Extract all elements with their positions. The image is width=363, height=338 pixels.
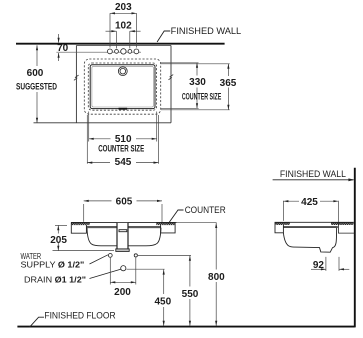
counter left end block (front view) bbox=[71, 222, 86, 233]
overflow slot mark (top view front edge) bbox=[119, 108, 128, 110]
counter front edge (top view) bbox=[34, 122, 172, 124]
water supply circle left bbox=[108, 254, 112, 258]
svg-text:203: 203 bbox=[115, 2, 132, 13]
drain leader bbox=[90, 269, 121, 278]
svg-text:600: 600 bbox=[27, 68, 44, 79]
drain circle bbox=[121, 266, 126, 271]
svg-text:70: 70 bbox=[57, 43, 69, 54]
sink rim lines (side view) bbox=[283, 226, 337, 228]
counter cutout dashed (top view) bbox=[88, 63, 156, 110]
dim 800 line bbox=[215, 223, 217, 270]
svg-text:205: 205 bbox=[50, 235, 67, 246]
dim 92 line bbox=[311, 268, 326, 270]
svg-text:92: 92 bbox=[313, 260, 325, 271]
faucet centre line bbox=[56, 51, 141, 53]
svg-text:365: 365 bbox=[220, 78, 237, 89]
drain coupling (front view) bbox=[116, 249, 129, 252]
dim 102 extension lines bbox=[115, 31, 117, 48]
dim 425 line bbox=[283, 200, 338, 202]
dim 200 line bbox=[110, 281, 136, 283]
svg-text:605: 605 bbox=[116, 197, 133, 208]
counter top line (side view) bbox=[275, 221, 354, 223]
svg-text:SUGGESTED: SUGGESTED bbox=[16, 82, 57, 93]
dim 550 line bbox=[189, 256, 191, 287]
dim 330 line bbox=[196, 63, 198, 76]
dim 425 text bbox=[299, 196, 320, 206]
dim 203 extension lines bbox=[109, 13, 111, 47]
faucet hole 1 bbox=[108, 49, 113, 54]
sink outer rim dashed (top view) bbox=[84, 59, 160, 114]
dim 545 text bbox=[110, 156, 136, 167]
counter right end block (front view) bbox=[161, 222, 176, 233]
faucet hole 3 bbox=[121, 49, 126, 54]
svg-text:COUNTER SIZE: COUNTER SIZE bbox=[98, 144, 144, 154]
finished wall line (top view) bbox=[16, 43, 225, 45]
counter top line (front view) bbox=[71, 221, 177, 223]
counter hatch left (side view) bbox=[275, 222, 289, 225]
finished wall line (side view, vertical) bbox=[354, 168, 356, 328]
sink bowl inner edge (top view) bbox=[92, 66, 153, 107]
counter hatch right (side view) bbox=[331, 222, 354, 225]
dim 330 extension lines bbox=[161, 62, 199, 64]
counter left edge (top view) bbox=[75, 46, 77, 123]
dim 600 line bbox=[36, 45, 38, 66]
overflow hole inner circle (top view) bbox=[120, 68, 126, 74]
sink bowl profile (side view) bbox=[283, 228, 336, 253]
800 extension line bbox=[177, 222, 217, 224]
svg-text:545: 545 bbox=[115, 157, 132, 168]
counter right edge (top view) bbox=[170, 46, 172, 123]
svg-text:200: 200 bbox=[114, 287, 131, 298]
dim 365 line bbox=[227, 64, 229, 76]
dim 450 line bbox=[163, 270, 165, 294]
faucet hole 2 bbox=[115, 50, 119, 54]
counter hatch right (front view) bbox=[156, 222, 175, 225]
svg-text:FINISHED WALL: FINISHED WALL bbox=[280, 169, 346, 179]
sink back mount line (side view) bbox=[338, 232, 355, 234]
counter hatch left (front view) bbox=[71, 222, 90, 225]
dim 605 text bbox=[112, 196, 137, 207]
sink bowl outline (front view) bbox=[87, 228, 161, 246]
dim 200 extension lines bbox=[109, 258, 111, 285]
drain tube (front view) bbox=[117, 223, 128, 249]
dim 205 extension lines bbox=[55, 224, 67, 226]
faucet hole 5 bbox=[134, 49, 139, 54]
svg-text:425: 425 bbox=[301, 197, 318, 208]
water supply leader bbox=[90, 255, 108, 264]
dim 365 extension lines bbox=[161, 63, 230, 65]
counter left end block (side view) bbox=[275, 222, 283, 233]
break mark right edge bbox=[169, 75, 174, 80]
finished floor line bbox=[17, 326, 354, 328]
sink back edge (side view) bbox=[337, 222, 339, 233]
dim 102 line bbox=[106, 30, 117, 32]
dim 510 line bbox=[89, 138, 157, 140]
dim 510 text bbox=[111, 134, 137, 143]
svg-text:800: 800 bbox=[208, 272, 225, 283]
sink rim lines (front view) bbox=[86, 226, 161, 228]
svg-text:550: 550 bbox=[182, 289, 199, 300]
svg-text:102: 102 bbox=[115, 20, 132, 31]
faucet hole 4 bbox=[128, 50, 132, 54]
dim 545 extension lines bbox=[86, 115, 88, 164]
break mark left edge bbox=[74, 75, 79, 80]
counter top edge (top view) bbox=[76, 45, 171, 47]
svg-text:SUPPLY Ø 1/2": SUPPLY Ø 1/2" bbox=[21, 260, 85, 269]
svg-text:FINISHED FLOOR: FINISHED FLOOR bbox=[44, 310, 116, 320]
finished floor leader bbox=[30, 317, 45, 327]
finished wall underline with arrow (side view) bbox=[273, 179, 354, 181]
dim 605 extension lines bbox=[83, 204, 85, 222]
dim 203 line bbox=[110, 12, 137, 14]
svg-text:FINISHED WALL: FINISHED WALL bbox=[171, 26, 242, 36]
dim 70 arrows bbox=[58, 34, 60, 43]
dim 92 extension lines bbox=[325, 257, 327, 271]
dim 425 extension lines bbox=[282, 201, 284, 221]
svg-text:COUNTER: COUNTER bbox=[185, 205, 226, 215]
svg-text:DRAIN Ø1 1/2": DRAIN Ø1 1/2" bbox=[24, 276, 86, 285]
dim 605 line bbox=[84, 200, 162, 202]
550 extension line bbox=[138, 254, 191, 256]
drain tube slot (front view) bbox=[119, 230, 127, 232]
svg-text:330: 330 bbox=[189, 77, 206, 88]
dim 545 line bbox=[87, 162, 158, 164]
svg-text:COUNTER SIZE: COUNTER SIZE bbox=[182, 91, 222, 101]
finished wall leader (top view) bbox=[157, 31, 170, 42]
dim 205 arrows bbox=[57, 225, 59, 233]
counter leader (front view) bbox=[168, 210, 184, 224]
sink bowl rect (top view) bbox=[90, 65, 155, 109]
dim 510 extension lines bbox=[88, 112, 90, 142]
svg-text:450: 450 bbox=[154, 296, 171, 307]
water supply circle right bbox=[134, 254, 137, 257]
overflow hole outer circle (top view) bbox=[118, 67, 127, 76]
450 extension line bbox=[127, 268, 165, 270]
